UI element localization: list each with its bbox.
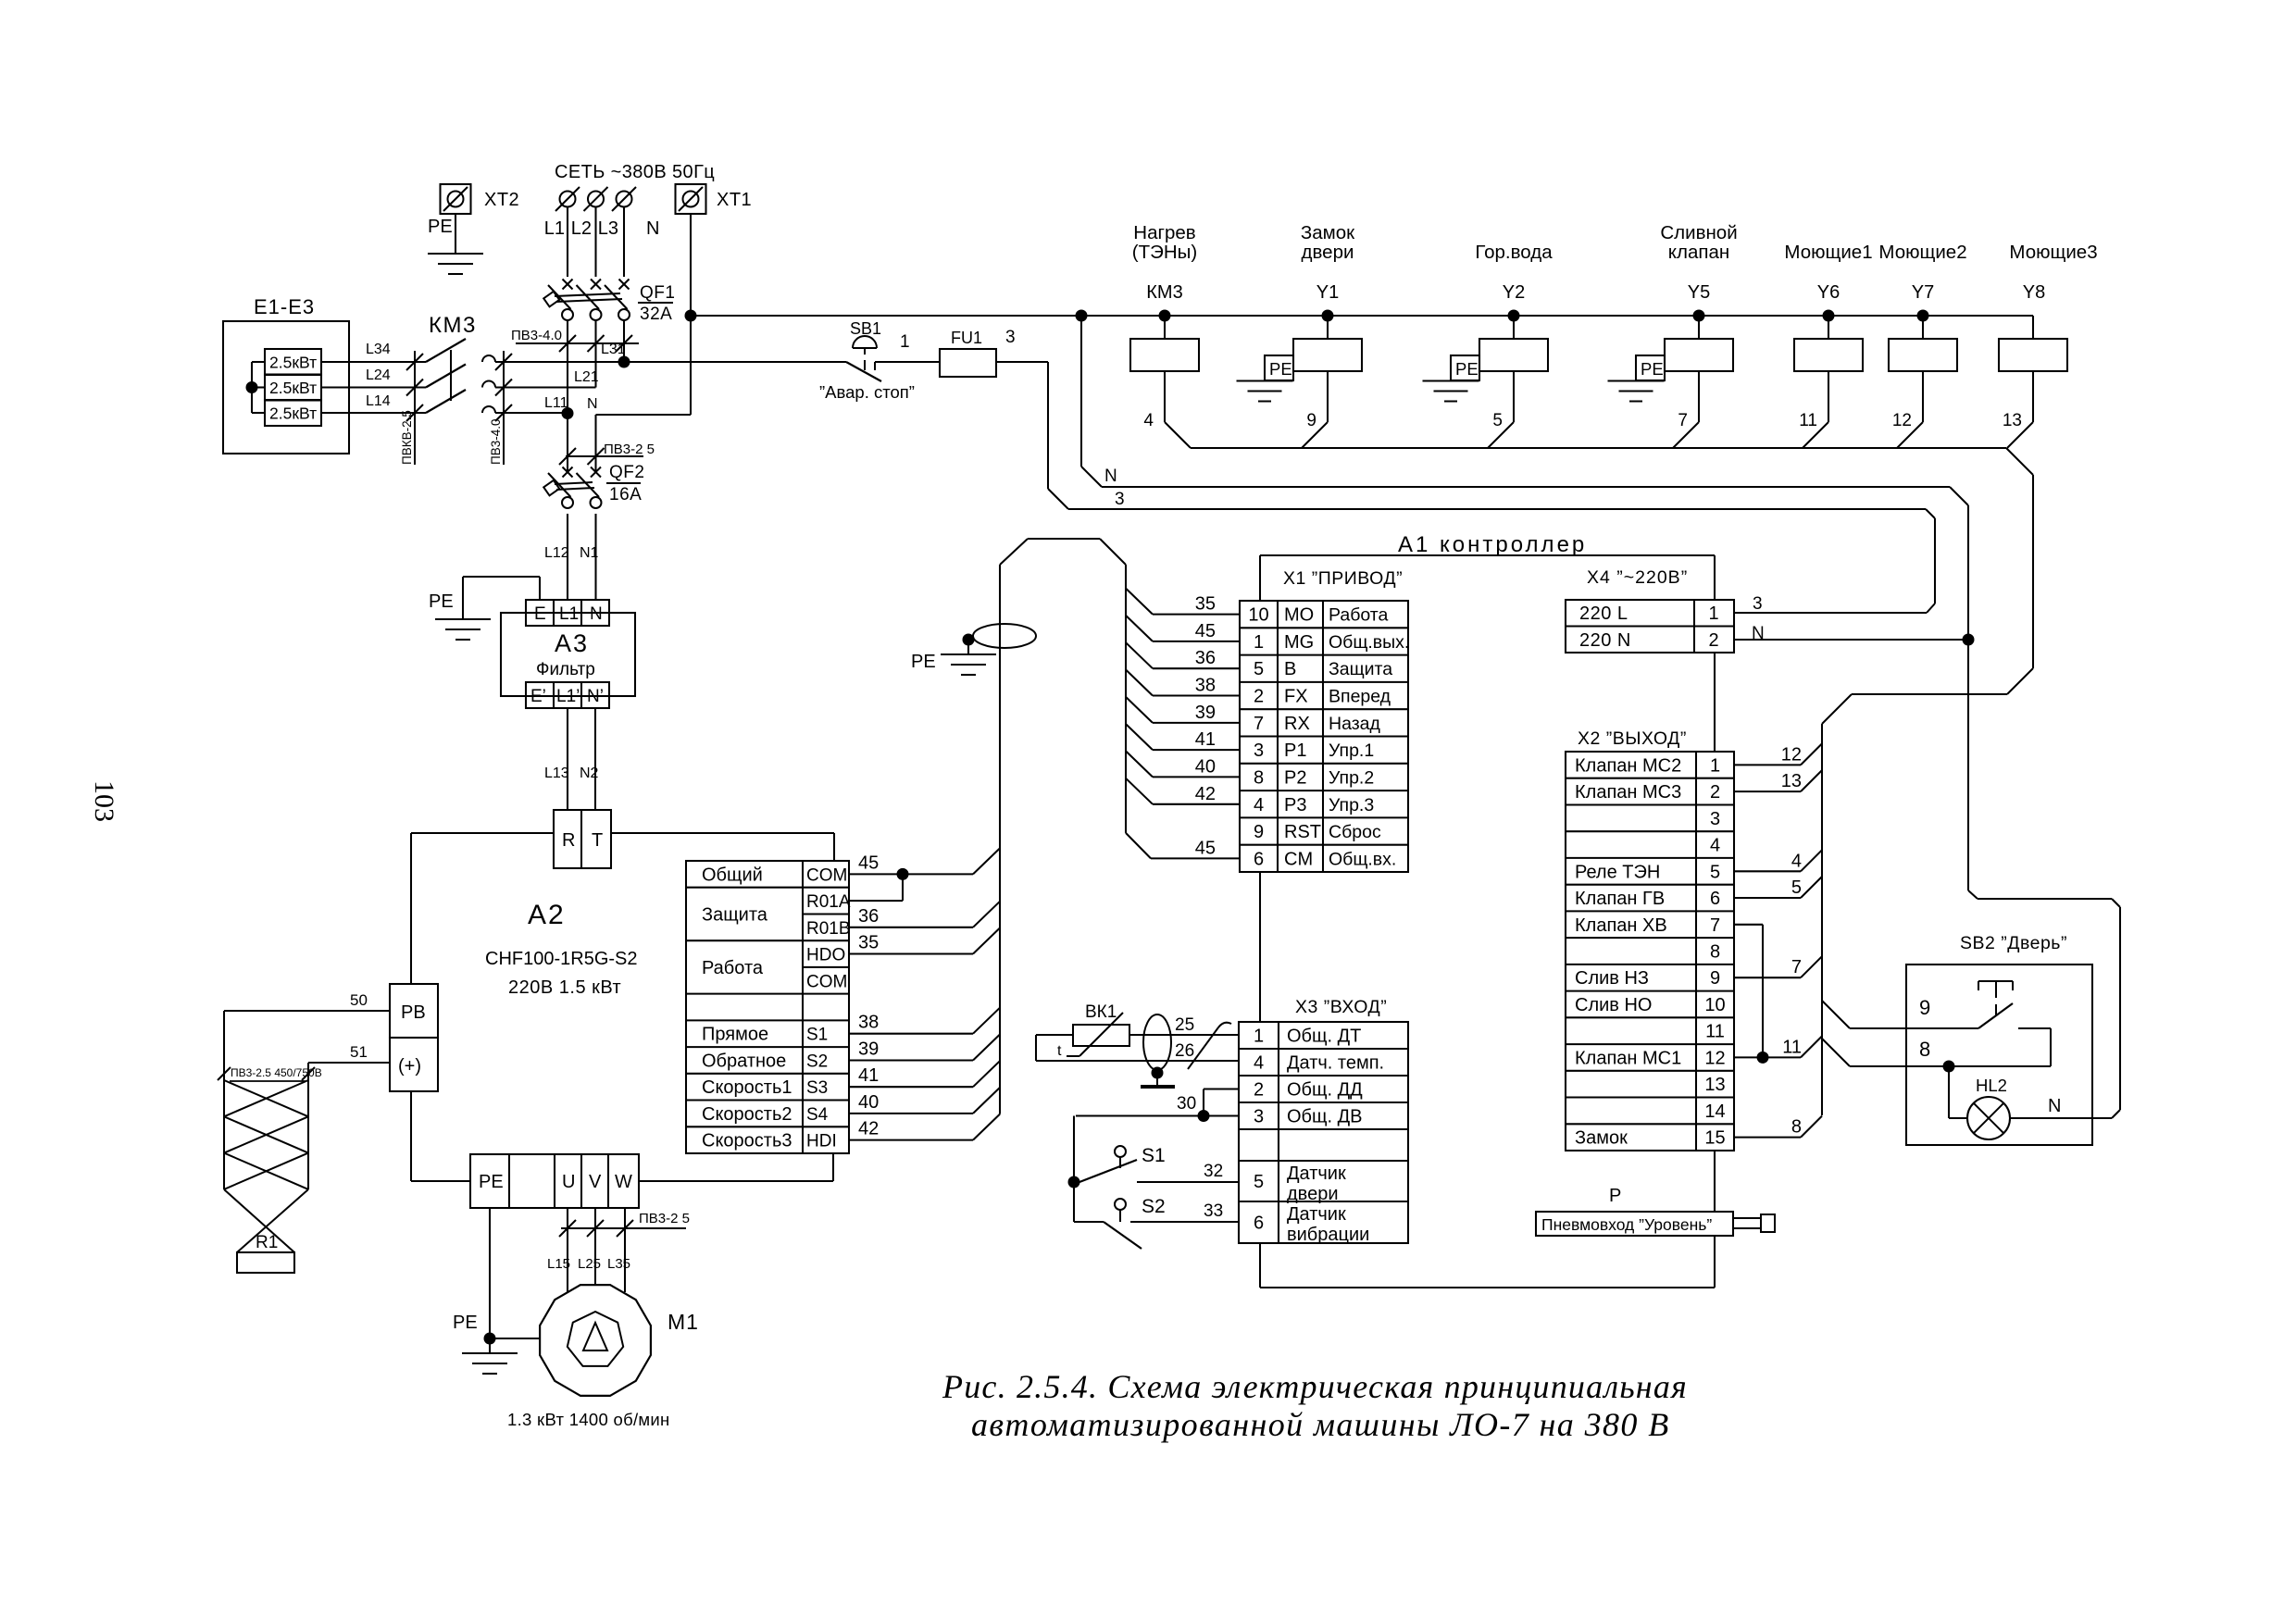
svg-text:15: 15 (1704, 1128, 1725, 1149)
svg-text:CHF100-1R5G-S2: CHF100-1R5G-S2 (485, 949, 638, 969)
svg-text:Общ. ДД: Общ. ДД (1287, 1080, 1363, 1101)
svg-text:220 N: 220 N (1579, 630, 1631, 651)
svg-text:N: N (2048, 1096, 2061, 1116)
svg-text:FU1: FU1 (951, 329, 982, 347)
svg-text:COM: COM (806, 865, 847, 885)
svg-text:X1 ”ПРИВОД”: X1 ”ПРИВОД” (1283, 568, 1403, 589)
svg-text:Y7: Y7 (1912, 282, 1934, 303)
svg-text:9: 9 (1710, 968, 1720, 989)
svg-text:P2: P2 (1284, 767, 1306, 788)
svg-text:9: 9 (1306, 411, 1316, 430)
svg-text:26: 26 (1175, 1041, 1194, 1061)
svg-text:R1: R1 (256, 1233, 278, 1252)
svg-text:35: 35 (1195, 594, 1216, 615)
svg-text:Y2: Y2 (1503, 282, 1525, 303)
svg-text:КМ3: КМ3 (1146, 282, 1182, 303)
svg-text:MG: MG (1284, 632, 1314, 653)
svg-text:Сброс: Сброс (1329, 822, 1381, 842)
svg-text:Y6: Y6 (1817, 282, 1840, 303)
svg-text:36: 36 (1195, 648, 1216, 668)
svg-text:B: B (1284, 659, 1296, 679)
svg-text:COM: COM (806, 972, 847, 991)
svg-text:Скорость2: Скорость2 (702, 1104, 792, 1125)
svg-text:t: t (1057, 1043, 1062, 1059)
svg-text:L31: L31 (601, 342, 626, 357)
svg-text:РВ: РВ (401, 1002, 426, 1023)
svg-text:Гор.вода: Гор.вода (1475, 242, 1553, 263)
svg-text:Защита: Защита (1329, 659, 1392, 679)
svg-text:QF1: QF1 (640, 283, 675, 303)
svg-text:Слив НЗ: Слив НЗ (1575, 968, 1649, 989)
svg-text:Клапан ГВ: Клапан ГВ (1575, 889, 1665, 909)
svg-text:L1’: L1’ (556, 687, 580, 706)
svg-text:L21: L21 (574, 369, 599, 385)
svg-text:1.3 кВт 1400 об/мин: 1.3 кВт 1400 об/мин (507, 1410, 670, 1429)
svg-text:L3: L3 (598, 218, 618, 239)
svg-text:7: 7 (1254, 714, 1264, 734)
svg-text:ПВ3-4.0: ПВ3-4.0 (489, 419, 503, 465)
svg-text:N: N (590, 604, 603, 624)
svg-text:КМ3: КМ3 (429, 313, 477, 338)
svg-text:Клапан МС3: Клапан МС3 (1575, 782, 1681, 803)
svg-text:N’: N’ (587, 687, 604, 706)
svg-text:HDI: HDI (806, 1132, 837, 1151)
svg-text:10: 10 (1704, 995, 1725, 1015)
svg-text:HL2: HL2 (1976, 1076, 2007, 1095)
svg-text:9: 9 (1919, 996, 1930, 1019)
svg-text:S3: S3 (806, 1078, 828, 1098)
svg-text:PE: PE (1269, 359, 1292, 379)
svg-text:1: 1 (1710, 755, 1720, 776)
svg-text:Замок: Замок (1301, 222, 1355, 243)
svg-text:двери: двери (1302, 242, 1354, 263)
svg-text:L24: L24 (366, 367, 391, 383)
svg-text:СЕТЬ ~380В 50Гц: СЕТЬ ~380В 50Гц (555, 162, 715, 182)
svg-text:39: 39 (1195, 703, 1216, 723)
svg-text:12: 12 (1704, 1048, 1725, 1068)
svg-text:L11: L11 (544, 395, 568, 411)
svg-text:3: 3 (1753, 594, 1763, 614)
svg-text:Общий: Общий (702, 865, 763, 885)
svg-text:Реле ТЭН: Реле ТЭН (1575, 862, 1660, 882)
svg-text:S2: S2 (1142, 1196, 1166, 1217)
svg-text:11: 11 (1782, 1037, 1802, 1057)
svg-text:ПВКВ-2.5: ПВКВ-2.5 (400, 410, 414, 465)
svg-text:36: 36 (858, 906, 879, 927)
svg-text:Защита: Защита (702, 905, 768, 926)
svg-text:8: 8 (1254, 767, 1264, 788)
svg-text:Пневмовход ”Уровень”: Пневмовход ”Уровень” (1541, 1215, 1712, 1234)
svg-text:XT2: XT2 (484, 190, 519, 210)
svg-text:L1: L1 (559, 604, 579, 624)
svg-text:PE: PE (1455, 359, 1479, 379)
svg-text:1: 1 (1254, 632, 1264, 653)
svg-text:Р: Р (1609, 1186, 1621, 1206)
svg-text:X3 ”ВХОД”: X3 ”ВХОД” (1295, 997, 1387, 1017)
svg-text:13: 13 (1704, 1075, 1725, 1095)
svg-text:P1: P1 (1284, 741, 1306, 761)
svg-text:ВК1: ВК1 (1085, 1002, 1117, 1022)
svg-text:5: 5 (1710, 862, 1720, 882)
svg-text:V: V (589, 1172, 602, 1192)
svg-text:25: 25 (1175, 1015, 1194, 1035)
svg-text:PE: PE (1641, 359, 1664, 379)
svg-text:Y5: Y5 (1688, 282, 1710, 303)
svg-text:QF2: QF2 (609, 463, 644, 482)
svg-text:9: 9 (1254, 822, 1264, 842)
svg-text:2: 2 (1708, 630, 1718, 651)
svg-text:S1: S1 (806, 1026, 828, 1045)
svg-text:Фильтр: Фильтр (536, 660, 595, 679)
svg-text:N2: N2 (580, 765, 599, 781)
svg-text:R01B: R01B (806, 919, 851, 939)
svg-text:39: 39 (858, 1039, 879, 1060)
svg-text:RX: RX (1284, 714, 1310, 734)
svg-text:Слив НО: Слив НО (1575, 995, 1652, 1015)
svg-text:PE: PE (453, 1313, 478, 1333)
svg-text:X2 ”ВЫХОД”: X2 ”ВЫХОД” (1578, 728, 1687, 749)
svg-text:Работа: Работа (702, 958, 764, 978)
svg-text:42: 42 (858, 1119, 879, 1139)
svg-text:PE: PE (428, 217, 453, 237)
svg-text:51: 51 (350, 1043, 368, 1061)
svg-text:L34: L34 (366, 342, 391, 357)
svg-text:L13: L13 (544, 765, 569, 781)
svg-text:SB1: SB1 (850, 319, 881, 338)
svg-text:50: 50 (350, 991, 368, 1009)
svg-text:32: 32 (1204, 1162, 1223, 1181)
svg-text:Датчик: Датчик (1287, 1164, 1346, 1184)
svg-text:L14: L14 (366, 393, 391, 409)
svg-text:MO: MO (1284, 605, 1314, 626)
svg-text:32A: 32A (640, 305, 672, 324)
svg-text:Моющие3: Моющие3 (2009, 242, 2097, 263)
svg-text:2.5кВт: 2.5кВт (269, 354, 317, 372)
svg-text:2: 2 (1254, 687, 1264, 707)
svg-text:3: 3 (1254, 741, 1264, 761)
svg-text:Скорость3: Скорость3 (702, 1131, 792, 1151)
svg-text:3: 3 (1710, 809, 1720, 829)
svg-text:Общ. ДВ: Общ. ДВ (1287, 1107, 1362, 1127)
svg-text:2.5кВт: 2.5кВт (269, 404, 317, 423)
svg-text:8: 8 (1919, 1038, 1930, 1061)
svg-text:R: R (562, 830, 575, 851)
svg-text:(+): (+) (398, 1056, 421, 1077)
svg-text:1: 1 (1708, 604, 1718, 624)
svg-text:L25: L25 (578, 1256, 601, 1272)
svg-text:XT1: XT1 (717, 190, 752, 210)
svg-text:X4 ”~220В”: X4 ”~220В” (1587, 567, 1688, 588)
svg-text:Скорость1: Скорость1 (702, 1077, 792, 1098)
svg-text:Нагрев: Нагрев (1133, 222, 1195, 243)
svg-text:E’: E’ (530, 687, 546, 706)
svg-text:220 L: 220 L (1579, 604, 1628, 624)
svg-text:4: 4 (1254, 795, 1264, 815)
svg-text:33: 33 (1204, 1201, 1223, 1221)
svg-text:Упр.1: Упр.1 (1329, 741, 1374, 761)
svg-text:4: 4 (1254, 1053, 1264, 1074)
svg-text:11: 11 (1799, 411, 1817, 430)
svg-text:”Авар. стоп”: ”Авар. стоп” (819, 382, 915, 402)
svg-text:8: 8 (1710, 942, 1720, 963)
svg-text:Моющие2: Моющие2 (1878, 242, 1966, 263)
svg-text:4: 4 (1710, 836, 1720, 856)
svg-text:6: 6 (1254, 849, 1264, 869)
svg-text:5: 5 (1492, 411, 1503, 430)
svg-text:N: N (1104, 467, 1117, 486)
svg-text:Упр.2: Упр.2 (1329, 767, 1374, 788)
svg-text:А3: А3 (555, 629, 589, 657)
svg-text:2: 2 (1710, 782, 1720, 803)
svg-text:L15: L15 (547, 1256, 570, 1272)
svg-text:автоматизированной машины ЛО-7: автоматизированной машины ЛО-7 на 380 В (971, 1406, 1670, 1443)
svg-text:42: 42 (1195, 784, 1216, 804)
svg-text:А1 контроллер: А1 контроллер (1398, 532, 1587, 557)
svg-text:CM: CM (1284, 849, 1313, 869)
svg-text:N: N (587, 396, 598, 412)
svg-text:1: 1 (900, 332, 910, 352)
svg-text:7: 7 (1678, 411, 1688, 430)
svg-text:45: 45 (1195, 621, 1216, 641)
svg-text:Общ.вых.: Общ.вых. (1329, 632, 1409, 653)
svg-text:7: 7 (1710, 915, 1720, 936)
svg-text:Датчик: Датчик (1287, 1204, 1346, 1225)
svg-text:3: 3 (1254, 1107, 1264, 1127)
svg-text:L1: L1 (544, 218, 565, 239)
svg-text:12: 12 (1892, 411, 1912, 430)
svg-text:PE: PE (479, 1172, 504, 1192)
svg-text:S1: S1 (1142, 1145, 1166, 1166)
svg-text:E1-E3: E1-E3 (254, 295, 315, 318)
svg-text:Общ.вх.: Общ.вх. (1329, 849, 1396, 869)
svg-text:13: 13 (2003, 411, 2022, 430)
svg-text:HDO: HDO (806, 946, 845, 965)
svg-text:40: 40 (858, 1092, 879, 1113)
svg-text:4: 4 (1143, 411, 1154, 430)
svg-text:N1: N1 (580, 545, 599, 561)
svg-text:Прямое: Прямое (702, 1025, 768, 1045)
svg-text:Моющие1: Моющие1 (1784, 242, 1872, 263)
svg-text:14: 14 (1704, 1101, 1725, 1122)
svg-text:R01A: R01A (806, 892, 851, 912)
svg-text:Замок: Замок (1575, 1128, 1628, 1149)
svg-text:2.5кВт: 2.5кВт (269, 379, 317, 397)
svg-text:11: 11 (1705, 1022, 1725, 1042)
svg-text:5: 5 (1254, 1172, 1264, 1192)
svg-text:Y1: Y1 (1316, 282, 1339, 303)
svg-text:Общ. ДТ: Общ. ДТ (1287, 1027, 1361, 1047)
svg-text:6: 6 (1710, 889, 1720, 909)
svg-text:U: U (562, 1172, 575, 1192)
svg-text:(ТЭНы): (ТЭНы) (1132, 242, 1197, 263)
svg-text:L12: L12 (544, 545, 569, 561)
svg-text:6: 6 (1254, 1213, 1264, 1234)
svg-text:1: 1 (1254, 1027, 1264, 1047)
svg-text:ПВ3-4.0: ПВ3-4.0 (511, 328, 562, 343)
svg-text:Назад: Назад (1329, 714, 1380, 734)
svg-text:L2: L2 (571, 218, 592, 239)
svg-text:вибрации: вибрации (1287, 1225, 1369, 1245)
svg-text:Вперед: Вперед (1329, 687, 1391, 707)
svg-text:W: W (615, 1172, 632, 1192)
svg-text:Рис. 2.5.4. Схема электрическа: Рис. 2.5.4. Схема электрическая принципи… (942, 1368, 1688, 1405)
svg-text:5: 5 (1254, 659, 1264, 679)
svg-text:10: 10 (1248, 605, 1268, 626)
svg-text:М1: М1 (668, 1310, 699, 1334)
svg-text:30: 30 (1177, 1094, 1196, 1114)
svg-text:P3: P3 (1284, 795, 1306, 815)
svg-text:ПВ3-2 5: ПВ3-2 5 (639, 1211, 690, 1226)
svg-text:S4: S4 (806, 1105, 829, 1125)
svg-text:38: 38 (858, 1013, 879, 1033)
svg-text:45: 45 (1195, 838, 1216, 858)
svg-text:38: 38 (1195, 676, 1216, 696)
svg-text:2: 2 (1254, 1080, 1264, 1101)
svg-text:FX: FX (1284, 687, 1308, 707)
svg-text:Сливной: Сливной (1660, 222, 1737, 243)
svg-text:13: 13 (1781, 771, 1802, 791)
svg-text:ПВ3-2 5: ПВ3-2 5 (604, 442, 655, 457)
svg-text:Обратное: Обратное (702, 1052, 786, 1072)
svg-text:Клапан МС2: Клапан МС2 (1575, 755, 1681, 776)
svg-text:Упр.3: Упр.3 (1329, 795, 1374, 815)
svg-text:PE: PE (429, 591, 454, 612)
svg-text:Клапан ХВ: Клапан ХВ (1575, 915, 1667, 936)
svg-text:А2: А2 (528, 900, 566, 930)
svg-text:45: 45 (858, 853, 879, 873)
svg-text:S2: S2 (806, 1052, 828, 1072)
svg-text:PE: PE (911, 652, 936, 672)
svg-text:8: 8 (1791, 1117, 1802, 1138)
svg-text:12: 12 (1781, 744, 1802, 765)
svg-text:7: 7 (1791, 957, 1802, 977)
svg-text:клапан: клапан (1668, 242, 1729, 263)
svg-text:SB2 ”Дверь”: SB2 ”Дверь” (1960, 933, 2067, 953)
svg-text:Y8: Y8 (2023, 282, 2045, 303)
svg-text:103: 103 (89, 780, 119, 822)
svg-text:Клапан МС1: Клапан МС1 (1575, 1048, 1681, 1068)
svg-text:N: N (646, 218, 659, 239)
svg-text:двери: двери (1287, 1184, 1339, 1204)
svg-text:220В 1.5 кВт: 220В 1.5 кВт (508, 977, 621, 998)
svg-text:41: 41 (1195, 729, 1216, 750)
svg-text:16A: 16A (609, 485, 642, 504)
svg-text:Работа: Работа (1329, 605, 1389, 626)
svg-text:RST: RST (1284, 822, 1321, 842)
svg-text:40: 40 (1195, 756, 1216, 777)
svg-text:5: 5 (1791, 877, 1802, 898)
svg-text:Датч. темп.: Датч. темп. (1287, 1053, 1384, 1074)
svg-text:41: 41 (858, 1065, 879, 1086)
svg-text:35: 35 (858, 933, 879, 953)
svg-text:L35: L35 (607, 1256, 630, 1272)
svg-text:N: N (1752, 624, 1765, 643)
svg-text:4: 4 (1791, 851, 1802, 871)
svg-text:3: 3 (1005, 328, 1016, 347)
svg-text:3: 3 (1115, 490, 1125, 509)
svg-text:E: E (534, 604, 546, 624)
svg-text:T: T (592, 830, 603, 851)
